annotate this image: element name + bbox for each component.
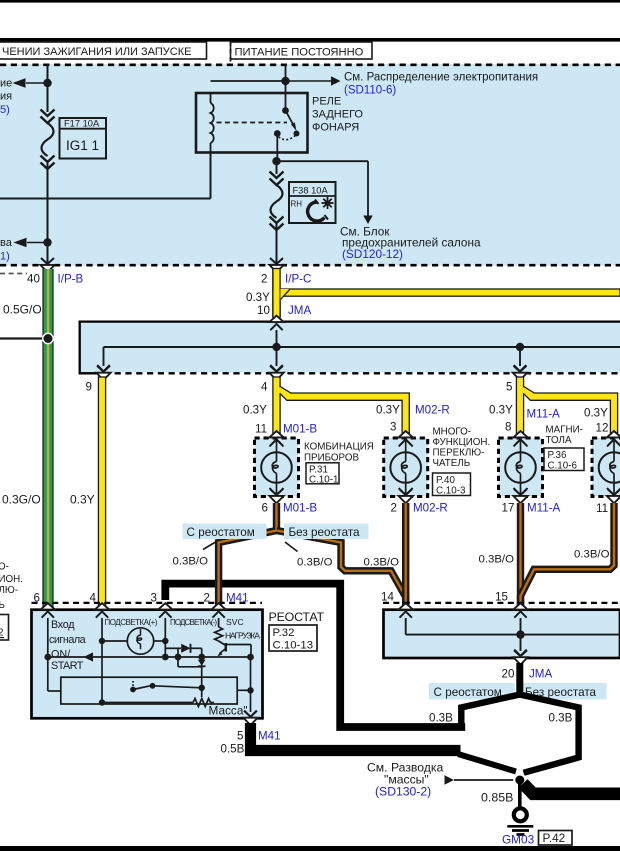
pin 2 exit — [269, 258, 283, 272]
fuse F17 label box — [60, 118, 107, 159]
lamp connector M01-B (instrument cluster) — [255, 438, 299, 497]
svg-text:2: 2 — [0, 628, 3, 639]
thick 0.3B wire from pin 20 with split — [516, 663, 523, 697]
svg-text:C.10-1: C.10-1 — [309, 474, 338, 485]
wire: left IG1 feed vertical — [47, 64, 49, 112]
svg-text:3: 3 — [151, 592, 157, 605]
thick 0.5B ground wire from M41 pin5 — [251, 723, 461, 751]
node at relay top — [281, 77, 289, 85]
svg-text:4: 4 — [90, 592, 97, 605]
wire 0.3Y branch bus to right lamp — [524, 386, 618, 433]
svg-text:M02-R: M02-R — [415, 404, 450, 417]
transistor — [225, 643, 227, 652]
svg-text:5): 5) — [0, 104, 10, 116]
svg-text:ия: ия — [0, 91, 12, 103]
svg-text:P.42: P.42 — [543, 831, 566, 845]
svg-text:Вход: Вход — [51, 619, 75, 631]
svg-text:C.10-6: C.10-6 — [548, 461, 578, 472]
svg-text:I/P-B: I/P-B — [58, 273, 84, 286]
svg-text:ПРИБОРОВ: ПРИБОРОВ — [304, 453, 359, 464]
svg-text:0.85В: 0.85В — [481, 791, 513, 805]
wire: branch to cabin fuse box ref — [277, 160, 369, 162]
top page border bar — [0, 0, 620, 3]
wire + arrow: see power distribution — [286, 80, 333, 82]
svg-text:0.3В: 0.3В — [549, 712, 573, 725]
svg-text:P.32: P.32 — [273, 627, 295, 639]
lamp connector M11-A (audio) — [499, 438, 543, 497]
ground junction node — [514, 774, 525, 785]
M41 pin 5 exit — [244, 711, 256, 717]
svg-text:РЕЛЕ: РЕЛЕ — [312, 96, 341, 108]
pin 10 entry — [269, 316, 283, 331]
svg-text:0.3G/O: 0.3G/O — [2, 493, 41, 507]
svg-text:M11-A: M11-A — [527, 408, 561, 421]
diode network — [165, 647, 181, 649]
svg-text:IG1 1: IG1 1 — [66, 138, 99, 153]
svg-text:C.10-3: C.10-3 — [436, 486, 466, 497]
JMA connector strip box — [80, 323, 620, 373]
svg-text:ФУНКЦИОН.: ФУНКЦИОН. — [433, 437, 491, 448]
svg-text:9: 9 — [86, 381, 92, 394]
svg-text:ON/: ON/ — [51, 649, 70, 661]
header box: constant power — [231, 42, 373, 59]
svg-text:2: 2 — [391, 502, 397, 515]
label: without rheostat (lower) — [521, 683, 607, 700]
svg-text:GM03: GM03 — [502, 833, 535, 847]
svg-text:(SD120-12): (SD120-12) — [342, 247, 403, 261]
svg-text:ТОЛА: ТОЛА — [546, 435, 572, 446]
svg-text:Ь: Ь — [0, 600, 5, 611]
svg-text:0.3В/О: 0.3В/О — [297, 557, 333, 569]
svg-text:M11-A: M11-A — [527, 502, 561, 515]
svg-text:0.3Y: 0.3Y — [584, 407, 608, 420]
wire + arrow to left page ref — [26, 82, 48, 84]
svg-text:0.3В: 0.3В — [429, 712, 453, 725]
svg-text:ЧАТЕЛЬ: ЧАТЕЛЬ — [433, 458, 471, 469]
svg-text:5: 5 — [506, 381, 512, 394]
wire 0.3Y branch bus to M02-R — [280, 386, 409, 433]
svg-text:С реостатом: С реостатом — [187, 526, 255, 539]
svg-text:JMA: JMA — [529, 668, 552, 681]
svg-text:ЧЕНИИ ЗАЖИГАНИЯ ИЛИ ЗАПУСКЕ: ЧЕНИИ ЗАЖИГАНИЯ ИЛИ ЗАПУСКЕ — [2, 46, 191, 58]
svg-text:0.3Y: 0.3Y — [246, 291, 270, 304]
thick header rule — [0, 38, 620, 42]
svg-text:0.3В/О: 0.3В/О — [574, 549, 610, 561]
svg-text:JMA: JMA — [288, 304, 311, 317]
node: junction to SD-ref bottom-left — [43, 238, 51, 246]
svg-text:ПЕРЕКЛЮ-: ПЕРЕКЛЮ- — [433, 448, 485, 459]
node: junction to SD110-5 — [43, 79, 51, 87]
svg-text:0.3Y: 0.3Y — [70, 493, 95, 507]
wire: horizontal from coil to left edge — [0, 198, 211, 200]
wire 0.3Y pin4 down to M01-B pin11 — [273, 377, 280, 435]
svg-text:SVC: SVC — [226, 617, 244, 627]
M41 rheostat pin row — [32, 602, 263, 604]
right control box — [384, 610, 620, 658]
svg-text:5: 5 — [237, 730, 243, 743]
relay switch — [285, 93, 287, 111]
svg-text:(SD110-6): (SD110-6) — [344, 85, 396, 97]
pin 40 exit — [40, 258, 54, 272]
svg-text:M41: M41 — [258, 730, 281, 743]
label: with rheostat (lower) — [429, 683, 515, 700]
svg-text:С реостатом: С реостатом — [434, 686, 502, 699]
svg-text:ЛЮ-: ЛЮ- — [0, 585, 18, 596]
svg-text:6: 6 — [262, 502, 268, 515]
svg-text:12: 12 — [596, 422, 609, 435]
M41 pin entries — [41, 603, 55, 618]
svg-text:ие: ие — [0, 78, 12, 90]
fuse F38 label box with tail lamp icon — [289, 182, 336, 223]
svg-text:КОМБИНАЦИЯ: КОМБИНАЦИЯ — [304, 442, 374, 453]
right control box pin row — [383, 602, 620, 604]
svg-text:сигнала: сигнала — [49, 634, 86, 646]
bottom page border bar — [0, 846, 620, 851]
wire: relay top feed — [285, 64, 287, 93]
wire 0.3Y pin9 down to rheostat — [98, 377, 105, 607]
svg-text:M02-R: M02-R — [413, 502, 448, 515]
label: with rheostat (upper) — [183, 524, 267, 540]
svg-text:ПОДСВЕТКА(+): ПОДСВЕТКА(+) — [105, 618, 158, 627]
svg-text:0.5B: 0.5B — [221, 743, 245, 756]
lamp connector M02-R (multifunction switch) — [384, 438, 428, 497]
bottom pins of lamp connectors — [269, 489, 283, 503]
lamp symbol — [127, 628, 153, 654]
wire 0.3Y pin5 down to M11-A pin8 — [516, 377, 523, 435]
header box: ignition — [0, 42, 207, 59]
svg-text:4: 4 — [261, 381, 268, 394]
svg-text:M41: M41 — [226, 592, 249, 605]
rheostat internal details — [84, 652, 94, 661]
svg-text:F17 10A: F17 10A — [64, 119, 100, 129]
wire JMA yellow bus to right edge — [281, 289, 620, 296]
power zone box (light blue, dashed) — [0, 64, 620, 266]
svg-text:6: 6 — [34, 592, 40, 605]
node below relay — [272, 157, 280, 165]
svg-text:МНОГО-: МНОГО- — [433, 427, 472, 438]
svg-text:0.3Y: 0.3Y — [489, 404, 513, 417]
fuse F17 symbol — [41, 110, 55, 117]
internal exit arrows — [97, 365, 109, 371]
svg-text:0.3Y: 0.3Y — [243, 404, 267, 417]
relay coil — [210, 93, 212, 103]
svg-text:8: 8 — [505, 421, 511, 434]
svg-text:17: 17 — [502, 502, 515, 515]
svg-text:P.36: P.36 — [548, 450, 567, 461]
svg-text:1): 1) — [0, 251, 10, 263]
svg-text:C.10-13: C.10-13 — [273, 640, 314, 652]
svg-text:2: 2 — [261, 273, 267, 286]
wire: relay output down — [276, 134, 278, 162]
relay coil-armature dashed link — [217, 122, 288, 124]
svg-text:P.40: P.40 — [436, 475, 455, 486]
rheostat box — [32, 610, 263, 719]
SVC load resistor — [215, 627, 223, 641]
svg-text:RH: RH — [291, 200, 303, 209]
svg-text:11: 11 — [596, 502, 608, 515]
B/O wire: M01-B pin6 split right to box pin14 — [277, 531, 406, 608]
svg-text:0.3В/О: 0.3В/О — [173, 556, 209, 568]
clipped dashed fragment left edge — [0, 273, 27, 275]
svg-text:МАГНИ-: МАГНИ- — [546, 425, 583, 436]
svg-text:40: 40 — [27, 273, 40, 286]
svg-text:НАГРУЗКА: НАГРУЗКА — [225, 631, 260, 641]
svg-text:20: 20 — [502, 668, 515, 681]
svg-text:15: 15 — [495, 591, 508, 604]
svg-text:Без реостата: Без реостата — [289, 526, 361, 539]
svg-text:ва: ва — [0, 237, 13, 249]
svg-text:(SD130-2): (SD130-2) — [375, 785, 431, 799]
svg-text:ПИТАНИЕ ПОСТОЯННО: ПИТАНИЕ ПОСТОЯННО — [235, 47, 364, 59]
svg-text:11: 11 — [255, 423, 267, 436]
wire + arrow to left page ref — [27, 242, 48, 244]
svg-text:Масса": Масса" — [209, 704, 248, 718]
label: without rheostat (upper) — [284, 524, 369, 540]
svg-text:0.3Y: 0.3Y — [376, 404, 400, 417]
inner switch box — [61, 677, 237, 704]
svg-text:START: START — [51, 660, 84, 672]
pins 9/4/5 exits — [96, 366, 110, 380]
node on green wire — [0, 337, 43, 339]
svg-text:См. Распределение электропитан: См. Распределение электропитания — [344, 72, 538, 84]
svg-text:РЕОСТАТ: РЕОСТАТ — [269, 610, 325, 624]
svg-text:ПОДСВЕТКА(-): ПОДСВЕТКА(-) — [170, 618, 217, 627]
relay box: rear lamp relay — [196, 93, 308, 153]
JMA internal wire — [104, 346, 620, 348]
ground symbol GM03 — [514, 808, 527, 821]
svg-text:M01-B: M01-B — [283, 423, 317, 436]
0.85B heavy wire to right — [523, 784, 620, 794]
svg-text:ФОНАРЯ: ФОНАРЯ — [312, 122, 359, 134]
dashed divider between power zones — [230, 41, 232, 64]
svg-text:ИОН.: ИОН. — [0, 574, 23, 585]
svg-text:10: 10 — [257, 304, 270, 317]
wire down to ground point — [518, 784, 522, 808]
svg-text:О-: О- — [0, 562, 9, 573]
svg-text:2: 2 — [204, 592, 210, 605]
B/O wire: M11-A pin17 to pin15 — [517, 503, 524, 607]
svg-text:14: 14 — [381, 591, 394, 604]
svg-text:ЗАДНЕГО: ЗАДНЕГО — [312, 109, 363, 121]
right box internal wires — [405, 618, 407, 635]
svg-text:0.3В/О: 0.3В/О — [364, 557, 400, 569]
B/O wire: M02-R pin2 to pin14 — [402, 503, 409, 607]
lamp connector right (clipped) — [592, 438, 620, 497]
B/O wire: right lamp pin11 to pin15 — [521, 503, 615, 607]
rheostat internal circuit — [48, 618, 251, 712]
svg-text:0.5G/O: 0.5G/O — [3, 303, 42, 317]
masse resistor — [193, 699, 210, 707]
fuse F38 symbol — [270, 172, 284, 179]
svg-text:F38 10A: F38 10A — [293, 186, 329, 196]
svg-text:3: 3 — [390, 421, 396, 434]
svg-text:M01-B: M01-B — [283, 502, 317, 515]
thick 0.3B wire: M41 pin3 to rheostat bypass bar — [165, 584, 465, 727]
wire I/P-C yellow — [273, 269, 280, 320]
B/O wire: M01-B pin6 split left to M41 pin2 — [219, 503, 277, 607]
svg-text:I/P-C: I/P-C — [285, 273, 311, 286]
svg-text:0.3В/О: 0.3В/О — [479, 554, 515, 566]
wire I/P-B green/orange — [42, 269, 53, 608]
